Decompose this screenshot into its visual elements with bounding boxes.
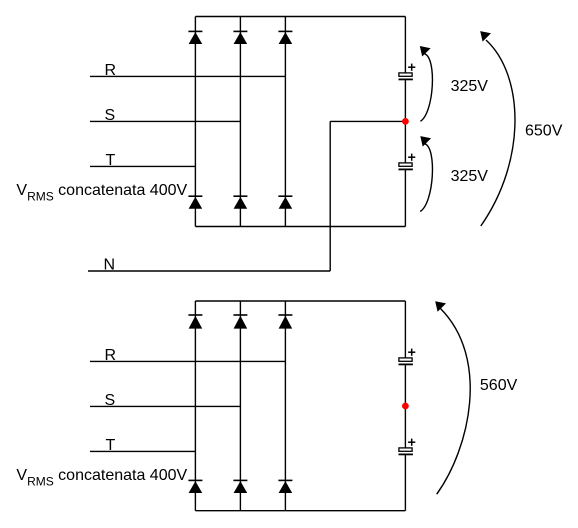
wire: top bus (bottom rectifier) — [195, 300, 405, 302]
wire: midpoint branch horizontal — [330, 120, 405, 122]
svg-text:R: R — [105, 62, 117, 79]
wire: phase R input — [90, 75, 285, 77]
capacitor C3 (+ top) — [399, 349, 416, 365]
wire: bottom bus (bottom rectifier) — [195, 510, 405, 512]
wire: right edge upper segment — [404, 17, 406, 73]
node: DC midpoint (red junction dot) — [402, 118, 409, 125]
wire: bridge leg 3 — [284, 17, 286, 227]
wire: right edge middle segment (bottom rectifier) — [404, 364, 406, 448]
diode D7 (top row, leg 1) — [188, 315, 202, 329]
wire: bridge leg 1 (left edge, bottom rectifier) — [194, 301, 196, 511]
diode D12 (bottom row, leg 3) — [278, 480, 292, 493]
wire: right edge lower segment — [404, 169, 406, 226]
diode D4 (bottom row, leg 1) — [188, 196, 202, 209]
diode D3 (top row, leg 3) — [278, 31, 292, 44]
svg-text:325V: 325V — [451, 78, 489, 95]
capacitor C2 (+ top) — [399, 154, 416, 170]
svg-text:VRMS concatenata 400V: VRMS concatenata 400V — [16, 467, 187, 489]
arrow arc: 325V upper measurement — [420, 46, 433, 121]
wire: right edge lower segment (bottom rectifier) — [404, 454, 406, 510]
diode D5 (bottom row, leg 2) — [233, 196, 247, 209]
wire: phase R input (bottom rectifier) — [90, 360, 285, 362]
diode D1 (top row, leg 1) — [188, 31, 202, 44]
arrow arc: 650V measurement — [480, 31, 515, 226]
wire: right edge upper segment (bottom rectifier) — [404, 301, 406, 358]
wire: phase S input (bottom rectifier) — [90, 405, 240, 407]
svg-text:R: R — [105, 347, 117, 364]
svg-text:T: T — [106, 152, 116, 169]
diode D8 (top row, leg 2) — [233, 315, 247, 329]
wire: midpoint branch vertical down to N — [329, 121, 331, 271]
capacitor C4 (+ top) — [399, 439, 416, 455]
wire: phase T input — [90, 165, 195, 167]
diode D9 (top row, leg 3) — [278, 315, 292, 329]
svg-text:560V: 560V — [480, 377, 518, 394]
svg-text:650V: 650V — [525, 123, 563, 140]
wire: top bus (top edge of bridge box) — [195, 16, 405, 18]
wire: phase S input — [90, 120, 240, 122]
diode D6 (bottom row, leg 3) — [278, 196, 292, 209]
wire: neutral N input — [88, 270, 330, 272]
svg-text:T: T — [106, 437, 116, 454]
svg-text:S: S — [105, 392, 116, 409]
wire: bottom bus (bottom edge of bridge box) — [195, 226, 405, 228]
diode D11 (bottom row, leg 2) — [233, 480, 247, 493]
wire: phase T input (bottom rectifier) — [90, 450, 195, 452]
arrow arc: 325V lower measurement — [420, 136, 432, 211]
wire: bridge leg 2 (bottom rectifier) — [239, 301, 241, 511]
capacitor C1 (+ top) — [399, 64, 416, 80]
wire: bridge leg 3 (bottom rectifier) — [284, 301, 286, 511]
arrow arc: 560V measurement — [435, 301, 470, 494]
svg-text:VRMS concatenata 400V: VRMS concatenata 400V — [16, 182, 187, 204]
wire: bridge leg 2 — [239, 17, 241, 227]
diode D2 (top row, leg 2) — [233, 31, 247, 44]
wire: bridge leg 1 (left edge) — [194, 17, 196, 227]
svg-text:S: S — [105, 107, 116, 124]
svg-text:325V: 325V — [451, 168, 489, 185]
diode D10 (bottom row, leg 1) — [188, 480, 202, 493]
wire: right edge middle segment — [404, 79, 406, 162]
node: DC midpoint (red junction dot, bottom rectifier) — [402, 403, 409, 410]
svg-text:N: N — [104, 257, 116, 274]
